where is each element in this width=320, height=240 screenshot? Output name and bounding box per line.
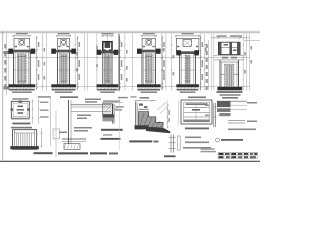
detail: pit step section bbox=[129, 96, 170, 142]
detail: plan box (right) bbox=[179, 97, 216, 130]
grid line annotation specks bbox=[44, 46, 253, 82]
detail: roof slab / louver section bbox=[101, 97, 128, 140]
elevator section 3 bbox=[97, 33, 123, 93]
left dimension text stack bbox=[4, 44, 10, 90]
notes text block bbox=[183, 137, 211, 149]
elevator section 4 bbox=[137, 33, 165, 93]
right edge roof line bbox=[244, 40, 260, 42]
elevator section 6 bbox=[206, 35, 250, 95]
sheet top border bbox=[0, 30, 260, 32]
grid line ticks bbox=[42, 44, 245, 87]
sheet bottom border bbox=[0, 160, 260, 162]
title block table bbox=[201, 148, 258, 159]
heavy grid line bbox=[118, 34, 120, 92]
detail: roof edge detail (far right) bbox=[216, 97, 258, 142]
detail: machine room plan (bottom left upper) bbox=[11, 96, 60, 157]
elevator section 5 bbox=[175, 33, 203, 93]
section cut line bbox=[119, 96, 121, 150]
elevator section 2 bbox=[51, 33, 80, 93]
detail: shaft section (bottom left lower) bbox=[10, 127, 52, 154]
detail: wall section with annotations bbox=[58, 96, 118, 154]
section 3 riser line bbox=[106, 33, 108, 42]
basement floor line bbox=[3, 85, 250, 87]
grid lines bbox=[43, 34, 250, 91]
sheet left frame bbox=[2, 31, 4, 161]
narrow wall element right of plan box bbox=[213, 103, 215, 127]
detail: narrow vertical pipe detail bbox=[164, 135, 180, 158]
elevator section 1 bbox=[8, 33, 39, 93]
long drawing title (bottom centre-left) bbox=[58, 152, 88, 154]
ground line bbox=[3, 57, 250, 59]
